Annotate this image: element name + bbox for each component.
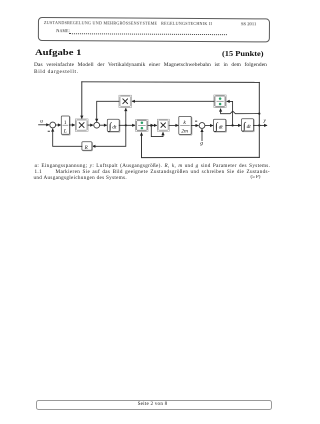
wire A: N3 up to div2 right	[227, 101, 232, 125]
bottom rail	[142, 133, 260, 158]
minus label at S3	[195, 120, 197, 123]
footer text	[36, 401, 270, 407]
integrator int2	[214, 119, 227, 132]
top rail	[82, 81, 259, 84]
svg-text:dt: dt	[219, 125, 224, 131]
block 1/L	[61, 116, 70, 135]
wire 1/L to X1	[69, 124, 74, 126]
minus label at S1	[48, 130, 50, 133]
wire X1 to S2	[88, 124, 93, 126]
wire D2 output to Xtop	[132, 100, 214, 102]
caption line 1.1	[35, 169, 271, 175]
header course title	[44, 20, 244, 26]
multiplier Xtop	[119, 95, 132, 107]
body paragraph	[34, 62, 268, 68]
arrow into div1 bottom	[140, 132, 143, 135]
multiplier X1	[75, 119, 88, 131]
wire Xtop bottom input from N1	[125, 109, 127, 126]
wire X2 self loop (square)	[151, 125, 163, 136]
header name line	[56, 29, 70, 34]
header box	[37, 17, 269, 42]
points label	[251, 175, 261, 180]
node on feedback at wireB	[258, 113, 260, 115]
multiplier X2	[157, 119, 169, 131]
wire Xtop output to S2	[97, 101, 119, 121]
summing junction S1	[50, 122, 56, 128]
node N2	[150, 124, 152, 126]
svg-text:2m: 2m	[181, 129, 188, 135]
wire S3 to int2	[205, 125, 213, 127]
footer box	[36, 400, 272, 411]
node N3	[232, 124, 234, 126]
summing junction S3	[199, 123, 205, 129]
wire u input	[39, 124, 49, 126]
wire k/2m to S3	[191, 125, 198, 127]
svg-text:L: L	[63, 129, 67, 135]
wire output y	[254, 124, 267, 126]
node N4 on output	[258, 124, 260, 126]
wire int2 to int3 with node N3	[226, 124, 241, 126]
wire N1 down to R	[93, 125, 126, 146]
summing junction S2	[94, 122, 100, 128]
wire S1 to 1/L	[56, 124, 61, 126]
wire S2 to int1	[100, 124, 107, 126]
divider block D2	[214, 95, 226, 108]
title Aufgabe 1	[35, 48, 81, 57]
svg-text:dt: dt	[112, 125, 117, 131]
node N1	[125, 124, 127, 126]
block R	[82, 142, 93, 151]
block k/2m	[179, 116, 192, 135]
feedback vertical line right	[258, 82, 260, 157]
integrator int3	[242, 119, 255, 132]
svg-text:u: u	[40, 119, 43, 125]
svg-text:g: g	[200, 141, 203, 147]
wire div1 to X2 with node N2	[148, 124, 156, 126]
wire g input	[201, 130, 203, 141]
title points	[222, 49, 264, 58]
caption line 1	[35, 163, 271, 169]
header group (slight scan rotation)	[0, 0, 300, 62]
wire int1 to div1 with node N1	[119, 124, 134, 126]
wire R to S1	[53, 129, 82, 146]
caption line 3	[34, 175, 270, 181]
svg-text:y: y	[263, 118, 267, 124]
header term	[241, 22, 256, 27]
wire top rail down to X1	[81, 82, 83, 118]
integrator int1	[107, 119, 120, 132]
wire X2 to k/2m	[169, 124, 178, 126]
svg-text:dt: dt	[247, 124, 252, 130]
divider block D1	[136, 120, 149, 132]
wire B: y to div2 bottom with hop	[221, 109, 260, 114]
